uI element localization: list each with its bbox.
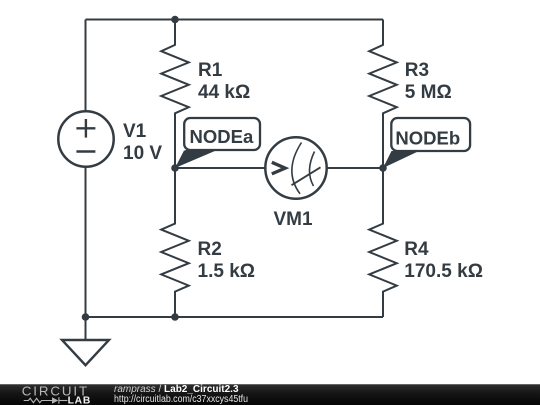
- svg-text:170.5 kΩ: 170.5 kΩ: [404, 261, 483, 282]
- svg-text:NODEa: NODEa: [190, 126, 254, 147]
- svg-text:1.5 kΩ: 1.5 kΩ: [198, 261, 256, 282]
- svg-text:V1: V1: [123, 121, 147, 142]
- svg-text:LAB: LAB: [68, 395, 92, 405]
- svg-text:44 kΩ: 44 kΩ: [198, 82, 250, 103]
- svg-text:R2: R2: [198, 239, 222, 260]
- svg-text:5 MΩ: 5 MΩ: [405, 82, 452, 103]
- svg-text:R3: R3: [405, 60, 429, 81]
- svg-text:R1: R1: [198, 60, 223, 81]
- svg-text:10 V: 10 V: [123, 143, 162, 164]
- svg-text:R4: R4: [404, 239, 429, 260]
- svg-text:NODEb: NODEb: [395, 128, 460, 149]
- svg-text:VM1: VM1: [274, 209, 314, 230]
